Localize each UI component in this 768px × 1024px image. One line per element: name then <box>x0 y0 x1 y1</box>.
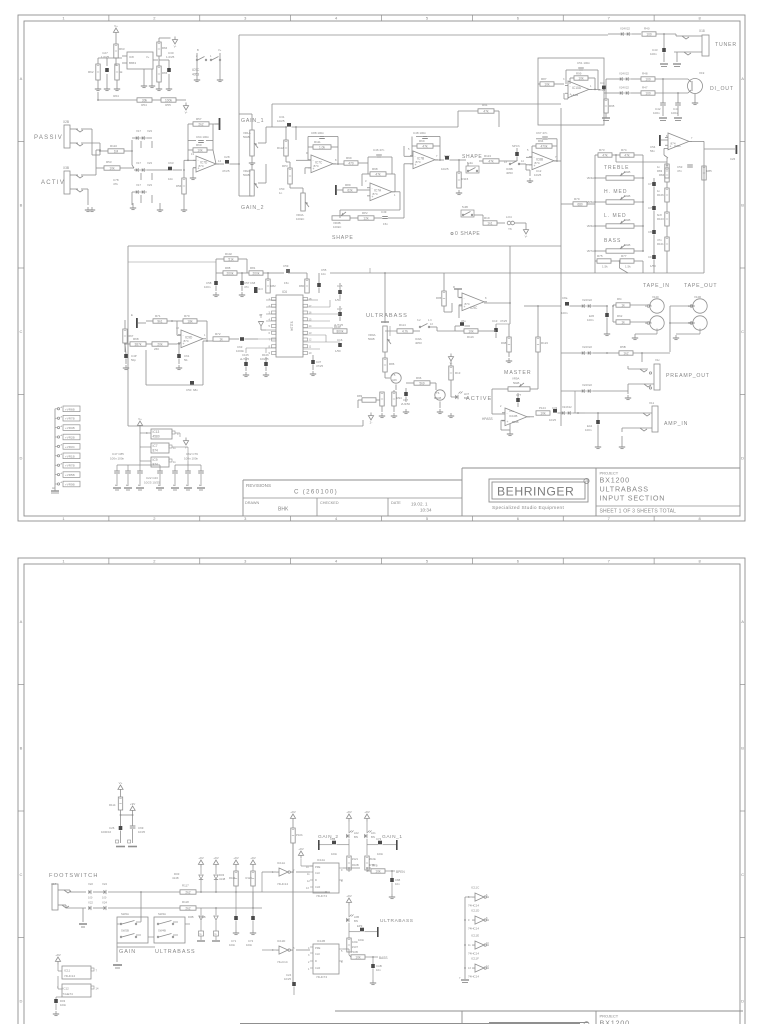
svg-text:-: - <box>198 159 199 163</box>
resistor R13 <box>449 361 461 380</box>
svg-text:1.5k: 1.5k <box>602 265 608 269</box>
op-amp IC9C <box>459 293 487 311</box>
svg-text:T6: T6 <box>436 391 440 395</box>
ground <box>448 413 454 418</box>
svg-text:2: 2 <box>500 405 502 408</box>
diode pair X24X22 <box>608 27 641 36</box>
label GAIN <box>119 949 136 955</box>
pullup resistors R119 R120 <box>229 856 256 947</box>
svg-text:10k: 10k <box>375 869 381 873</box>
wire <box>343 949 349 952</box>
capacitor C68 <box>250 281 263 293</box>
capacitor C30 label <box>166 51 175 59</box>
resistor R104 <box>291 822 303 873</box>
resistor R123 <box>536 306 549 360</box>
svg-text:1: 1 <box>272 871 274 874</box>
svg-text:R54: R54 <box>141 103 147 107</box>
svg-text:GAIN_2: GAIN_2 <box>241 205 264 211</box>
svg-text:2U2/50: 2U2/50 <box>401 402 410 406</box>
frame zone markers <box>18 558 745 1003</box>
svg-text:X24: X24 <box>102 882 107 886</box>
capacitor C4P <box>124 344 136 364</box>
svg-text:X22: X22 <box>88 901 93 905</box>
flipflop IC12B <box>308 939 343 979</box>
svg-text:R55: R55 <box>165 103 171 107</box>
ground <box>370 980 376 985</box>
svg-text:5x3A: 5x3A <box>467 161 473 165</box>
svg-text:414B: 414B <box>199 915 206 919</box>
svg-text:C62: C62 <box>330 837 336 841</box>
svg-text:200k: 200k <box>227 271 234 275</box>
svg-text:4053: 4053 <box>192 73 199 77</box>
svg-text:-: - <box>670 136 671 140</box>
svg-text:5: 5 <box>269 324 271 328</box>
diode X24 b <box>93 901 180 911</box>
resistor R47 <box>641 86 688 96</box>
svg-text:14: 14 <box>309 324 312 328</box>
capacitor C33 <box>549 406 562 422</box>
svg-text:CLK: CLK <box>315 871 320 875</box>
svg-text:R119: R119 <box>229 876 236 880</box>
svg-text:V+: V+ <box>138 417 142 421</box>
svg-text:100n: 100n <box>204 285 211 289</box>
resistor R100 <box>349 950 378 959</box>
resistor R74 <box>612 148 634 157</box>
capacitor C37 <box>311 355 323 370</box>
revisions text <box>245 483 432 513</box>
svg-text:R120: R120 <box>246 876 253 880</box>
svg-text:100n: 100n <box>653 111 660 115</box>
svg-text:BPEN: BPEN <box>396 870 405 874</box>
power +9V symbol <box>55 953 60 965</box>
ground <box>379 413 397 418</box>
svg-text:6: 6 <box>517 16 520 21</box>
resistor R95 <box>604 91 615 113</box>
capacitor C17 <box>337 306 343 321</box>
svg-text:B: B <box>197 48 199 52</box>
capacitor C31 <box>277 111 458 127</box>
capacitor C43 <box>650 34 666 62</box>
capacitor C48 <box>413 131 440 139</box>
wire <box>561 203 573 205</box>
svg-text:8: 8 <box>335 158 337 162</box>
power V- symbol <box>183 103 188 115</box>
capacitor C71 <box>648 178 656 190</box>
svg-text:CLR: CLR <box>315 885 320 889</box>
svg-text:A: A <box>741 619 744 624</box>
svg-text:D: D <box>20 998 23 1003</box>
resistor R94b <box>392 390 402 412</box>
svg-text:47/25: 47/25 <box>316 364 323 368</box>
svg-text:X2B: X2B <box>63 120 69 124</box>
svg-text:3: 3 <box>365 179 367 183</box>
wire <box>501 417 534 430</box>
svg-text:3.2: 3.2 <box>417 319 421 322</box>
svg-text:5x3B: 5x3B <box>462 205 468 209</box>
label SPCh <box>512 144 520 148</box>
svg-text:IC11D: IC11D <box>471 909 480 913</box>
svg-text:14: 14 <box>521 160 524 163</box>
svg-text:R103: R103 <box>657 217 664 221</box>
svg-text:-: - <box>183 333 184 337</box>
svg-text:B: B <box>741 745 744 750</box>
connector list X column <box>51 406 80 493</box>
svg-text:12: 12 <box>486 965 489 968</box>
resistor R89b <box>357 394 380 402</box>
svg-text:E: E <box>131 313 133 317</box>
wire <box>99 140 133 165</box>
svg-text:1/50: 1/50 <box>335 349 341 353</box>
svg-text:aU7/25: aU7/25 <box>240 357 249 361</box>
svg-text:10:34: 10:34 <box>420 508 432 513</box>
power V- symbol <box>522 223 529 239</box>
svg-text:50kB: 50kB <box>624 194 631 198</box>
wire <box>117 943 155 962</box>
svg-text:C46 47n: C46 47n <box>373 148 385 152</box>
svg-text:10: 10 <box>306 866 309 869</box>
potentiometer VR3B <box>332 212 358 229</box>
svg-text:R89: R89 <box>345 183 351 187</box>
svg-text:VR9A: VR9A <box>512 377 519 381</box>
svg-text:R7B: R7B <box>372 864 378 868</box>
resistor R68 <box>124 337 152 346</box>
svg-text:IC10A: IC10A <box>572 86 582 90</box>
svg-text:R82: R82 <box>271 284 277 288</box>
svg-text:BX1200: BX1200 <box>600 1019 630 1024</box>
ground <box>602 113 610 121</box>
svg-text:CHECKED: CHECKED <box>320 501 339 505</box>
capacitor C25 <box>335 283 343 302</box>
svg-text:R48: R48 <box>642 72 648 76</box>
capacitor C99 <box>505 148 519 161</box>
resistor R106 <box>657 188 669 202</box>
svg-text:X23: X23 <box>147 129 152 133</box>
svg-text:A: A <box>20 76 23 81</box>
svg-text:-: - <box>464 296 465 300</box>
capacitor C69 page2 <box>130 826 146 843</box>
gate IC11 74HC14 <box>58 965 98 980</box>
svg-text:7: 7 <box>608 16 611 21</box>
wire <box>574 391 576 413</box>
svg-text:800k: 800k <box>337 329 344 333</box>
svg-text:2-: 2- <box>370 421 373 425</box>
resistor R102 <box>224 252 238 261</box>
wire <box>97 92 137 101</box>
svg-text:SHAPE: SHAPE <box>462 154 482 160</box>
svg-text:CLR: CLR <box>315 966 320 970</box>
LED L03 <box>346 906 359 939</box>
svg-text:100n: 100n <box>246 943 253 947</box>
resistor R99 <box>344 156 368 165</box>
ground <box>85 194 187 212</box>
capacitor C63 <box>158 161 182 181</box>
ground <box>527 178 533 183</box>
wire <box>56 996 62 998</box>
svg-text:387k: 387k <box>135 342 142 346</box>
svg-text:50kB: 50kB <box>624 243 631 247</box>
capacitor C28 <box>222 155 239 173</box>
power V+ symbol <box>118 781 123 793</box>
svg-text:5: 5 <box>408 147 410 151</box>
resistor R77 <box>619 254 643 269</box>
svg-text:VR5A: VR5A <box>587 200 594 204</box>
svg-text:X24X22: X24X22 <box>562 405 572 409</box>
ground <box>660 64 668 67</box>
transistor X19 <box>688 71 705 100</box>
svg-text:10/25: 10/25 <box>549 418 556 422</box>
label BPEN <box>396 870 405 874</box>
svg-text:4: 4 <box>335 16 338 21</box>
svg-text:74uC14: 74uC14 <box>277 960 288 964</box>
svg-text:1.0/25: 1.0/25 <box>101 55 110 59</box>
svg-text:BEHRINGER: BEHRINGER <box>497 485 574 499</box>
switch SW4 ULTRABASS <box>154 912 185 943</box>
svg-text:1k: 1k <box>621 320 625 324</box>
svg-text:11: 11 <box>173 446 176 450</box>
svg-text:1: 1 <box>308 968 310 971</box>
svg-text:SPCh: SPCh <box>512 144 520 148</box>
svg-text:A: A <box>61 453 63 456</box>
jack X18 TUNER <box>674 29 709 62</box>
ground <box>507 430 513 436</box>
svg-text:5: 5 <box>341 950 343 953</box>
resistor R122 <box>365 856 376 872</box>
svg-text:V-: V- <box>174 45 177 49</box>
label PREAMP_OUT <box>666 373 710 379</box>
svg-text:100n: 100n <box>352 940 358 944</box>
svg-text:12k: 12k <box>363 216 369 220</box>
op-amp IC8 <box>122 52 158 69</box>
svg-text:1: 1 <box>62 16 65 21</box>
svg-text:9: 9 <box>269 351 271 355</box>
ground <box>194 77 223 82</box>
power +9V symbol <box>346 810 351 822</box>
svg-text:R111: R111 <box>314 140 321 144</box>
svg-text:PRE: PRE <box>315 946 321 950</box>
svg-text:4: 4 <box>177 432 179 436</box>
svg-text:R91: R91 <box>482 103 488 107</box>
svg-text:R86: R86 <box>389 362 395 366</box>
label GAIN_2 p2 <box>318 834 339 840</box>
ground <box>79 924 87 927</box>
svg-text:C48 100n: C48 100n <box>413 131 426 135</box>
svg-text:V+: V+ <box>218 48 222 52</box>
resistor R83 <box>657 164 669 178</box>
wire <box>115 58 117 66</box>
svg-text:HPASS: HPASS <box>482 417 493 421</box>
svg-text:-: - <box>372 186 373 190</box>
resistor R71 <box>146 314 177 323</box>
svg-text:10/25: 10/25 <box>441 167 449 171</box>
switch SW2 GAIN <box>117 912 148 943</box>
svg-text:X23: X23 <box>147 183 152 187</box>
capacitor C03 <box>54 997 66 1010</box>
svg-text:11: 11 <box>468 944 471 947</box>
svg-text:5: 5 <box>527 148 529 152</box>
svg-text:R62: R62 <box>88 70 94 74</box>
label AMP_IN <box>664 421 688 427</box>
ground <box>456 190 462 195</box>
svg-text:R: R <box>585 480 587 484</box>
svg-text:74HC74: 74HC74 <box>316 894 327 898</box>
power +9V symbol <box>290 810 295 822</box>
wire <box>492 389 508 414</box>
svg-text:TAPE_OUT: TAPE_OUT <box>684 283 717 289</box>
gate IC12 74HC74 <box>57 976 99 997</box>
label MASTER <box>504 370 532 376</box>
label L. MED <box>604 213 627 219</box>
svg-text:C: C <box>20 329 23 334</box>
resistor R117 <box>140 884 330 922</box>
svg-text:5: 5 <box>426 516 429 521</box>
svg-text:10n: 10n <box>395 882 400 886</box>
svg-text:874: 874 <box>199 164 204 168</box>
border frame <box>18 558 745 1024</box>
svg-text:1: 1 <box>210 54 212 58</box>
svg-text:R57: R57 <box>196 117 202 121</box>
svg-text:10n: 10n <box>376 968 381 972</box>
resistor R110 <box>108 144 124 153</box>
analog switch IC9A <box>415 319 437 345</box>
switch S3A <box>459 160 479 173</box>
svg-text:GAIN: GAIN <box>119 949 136 955</box>
svg-text:2: 2 <box>153 516 156 521</box>
label ACTIV <box>41 180 65 186</box>
capacitor C50 <box>146 341 203 392</box>
ground bar <box>453 285 462 293</box>
label BASS <box>379 956 388 960</box>
jack X17 footswitch <box>51 882 86 922</box>
svg-text:RP3: RP3 <box>282 164 288 168</box>
svg-text:260: 260 <box>154 347 159 351</box>
svg-text:C59: C59 <box>283 264 289 268</box>
diode pair X17 X23 <box>132 183 152 194</box>
svg-text:91134: 91134 <box>290 321 294 330</box>
diode pair X24X22 preamp <box>561 345 608 355</box>
svg-text:Y6: Y6 <box>508 227 512 231</box>
svg-text:C13: C13 <box>492 319 498 323</box>
chip IC6 91134 <box>269 290 312 357</box>
svg-text:18k: 18k <box>187 319 193 323</box>
svg-text:P10b: P10b <box>296 833 303 837</box>
svg-text:R69: R69 <box>419 139 425 143</box>
svg-text:+9V: +9V <box>298 847 303 851</box>
svg-text:TUNER: TUNER <box>715 42 737 48</box>
svg-text:R115: R115 <box>462 177 469 181</box>
wire <box>115 36 117 45</box>
wire <box>616 162 667 268</box>
svg-text:74HC14: 74HC14 <box>468 952 479 956</box>
svg-text:50kB: 50kB <box>368 337 375 341</box>
svg-text:7: 7 <box>269 338 271 342</box>
svg-text:PRE: PRE <box>315 865 321 869</box>
svg-text:MASTER: MASTER <box>504 370 532 376</box>
svg-text:C63: C63 <box>168 161 174 165</box>
svg-text:8: 8 <box>269 344 271 348</box>
power V+ symbol <box>113 24 118 36</box>
svg-text:3n3: 3n3 <box>258 287 263 291</box>
resistor RP3 <box>282 162 292 184</box>
resistor R88 <box>216 259 247 275</box>
svg-text:IC11D: IC11D <box>277 939 286 943</box>
svg-text:874: 874 <box>416 160 421 164</box>
svg-text:7: 7 <box>691 137 693 140</box>
wire <box>262 949 310 951</box>
resistor R98 <box>362 167 395 176</box>
resistor R98c <box>501 324 511 357</box>
svg-text:874: 874 <box>184 339 189 343</box>
svg-text:9k1: 9k1 <box>157 319 162 323</box>
svg-text:+6dB: +6dB <box>571 93 578 97</box>
svg-text:1: 1 <box>204 334 206 337</box>
resistor R62 <box>88 64 100 80</box>
resistor R9A <box>380 392 384 412</box>
svg-text:100n: 100n <box>377 852 384 856</box>
svg-text:100: 100 <box>102 896 107 900</box>
svg-text:+VR7B: +VR7B <box>65 417 75 421</box>
power V+ symbol <box>137 417 142 429</box>
svg-text:1k1: 1k1 <box>487 221 492 225</box>
resistor R40 <box>642 27 676 37</box>
svg-text:8: 8 <box>486 917 488 920</box>
svg-text:1: 1 <box>57 986 59 989</box>
label TAPE_OUT <box>684 283 717 289</box>
svg-text:R112: R112 <box>277 146 284 150</box>
svg-text:BN: BN <box>371 835 375 839</box>
svg-text:47n: 47n <box>244 285 249 289</box>
svg-text:3: 3 <box>244 559 247 564</box>
svg-text:T5: T5 <box>392 373 396 377</box>
svg-text:VR7A: VR7A <box>587 249 594 253</box>
label TUNER <box>715 42 737 48</box>
resistor R66 <box>157 42 168 56</box>
wire <box>496 323 510 325</box>
label SHAPE <box>332 235 354 241</box>
svg-text:100n: 100n <box>671 111 678 115</box>
svg-text:874: 874 <box>153 449 159 453</box>
logo tagline <box>492 505 564 511</box>
clamp diodes D03/D0B <box>188 856 226 941</box>
ground <box>403 409 443 414</box>
diode X22 b <box>88 901 93 911</box>
svg-text:GAIN_1: GAIN_1 <box>241 118 264 124</box>
diode pair X17 X23 <box>134 161 158 172</box>
svg-text:B: B <box>20 202 23 207</box>
capacitor C50p <box>279 187 285 195</box>
svg-text:6: 6 <box>517 559 520 564</box>
svg-text:30k: 30k <box>142 98 148 102</box>
svg-text:X17: X17 <box>136 129 141 133</box>
wire <box>98 58 122 86</box>
svg-text:GAIN_1: GAIN_1 <box>382 834 403 840</box>
svg-text:C (260100): C (260100) <box>294 489 338 496</box>
label HPASS <box>482 417 493 421</box>
svg-text:ACTIV: ACTIV <box>41 180 65 186</box>
svg-text:D0B: D0B <box>188 915 194 919</box>
svg-text:13: 13 <box>309 331 312 335</box>
svg-text:47k: 47k <box>113 182 118 186</box>
power +9V symbol <box>346 894 351 906</box>
diode X22 <box>88 882 93 900</box>
svg-text:50kB: 50kB <box>513 381 520 385</box>
wire <box>81 129 101 155</box>
capacitor C26 <box>704 145 737 161</box>
wire <box>669 306 695 352</box>
capacitor C70 <box>648 202 656 214</box>
wire <box>96 167 134 169</box>
svg-text:R77: R77 <box>621 254 627 258</box>
capacitor C63b <box>236 337 258 353</box>
